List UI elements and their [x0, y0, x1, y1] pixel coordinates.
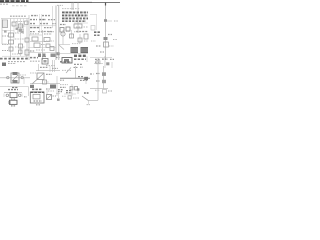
resistor R2 — [9, 33, 14, 37]
label texture mid y44 — [41, 44, 45, 46]
label x66 y92.5 — [66, 92, 72, 94]
label list row 5 word c — [48, 31, 54, 33]
wire ladder tick 3 — [72, 11, 74, 22]
capacitor C6 — [50, 47, 54, 51]
wire main right bus x105.5 — [105, 3, 107, 61]
wire horizontal y93.8 b — [64, 93, 76, 95]
bridge BR1 top blob — [13, 72, 18, 75]
wire ladder tick 5 — [80, 11, 82, 22]
label between boxes — [11, 98, 16, 100]
label x60 y80 — [60, 79, 64, 81]
label parts list row — [10, 15, 26, 17]
label right of D5 — [46, 73, 52, 75]
wire vertical x28.5 low — [28, 87, 30, 96]
choke L2 hatch 1 — [81, 48, 88, 50]
label texture right y37 — [74, 31, 80, 33]
label x66 y90.5 — [66, 90, 72, 92]
wire horizontal y56 left — [2, 55, 27, 57]
wire vertical x80 — [79, 34, 81, 44]
transformer T1 winding line 3 — [3, 25, 7, 27]
label left of R10 — [96, 73, 100, 75]
label below module — [36, 104, 41, 106]
wire vertical x20.5 — [20, 19, 22, 57]
label texture y44 right — [72, 43, 80, 45]
capacitor C15 dark — [50, 85, 56, 89]
label block row 4 — [62, 20, 86, 22]
capacitor C1b — [25, 21, 29, 25]
resistor R11 body — [102, 80, 106, 83]
label row y31 right — [76, 31, 88, 33]
terminal pad dark — [2, 63, 6, 67]
wire vertical x23.5 — [23, 19, 25, 35]
label above T3 — [8, 89, 18, 91]
label texture band y61 x14 — [8, 61, 26, 63]
wire horizontal y41 — [30, 41, 44, 43]
label x30 y51 — [30, 50, 35, 52]
label x95 y62 — [95, 61, 100, 63]
title caption text line2 — [0, 3, 9, 5]
section label dashes mid — [30, 57, 38, 59]
connector circle right — [21, 76, 23, 78]
choke L1 dark body — [71, 47, 79, 53]
node blob x105 y20 — [104, 19, 107, 22]
bridge BR1 bottom blob — [13, 80, 18, 83]
module B1 inner — [64, 59, 69, 62]
wire vertical drop x72 — [71, 3, 73, 11]
diode D7 diagonal — [66, 68, 71, 74]
label list row 3 word b — [40, 23, 48, 25]
wire vertical x78 low — [77, 88, 79, 94]
wire tail x88.5 down — [88, 100, 90, 104]
label texture left y33 — [15, 32, 24, 34]
label x58 y89.5 — [58, 89, 63, 91]
choke L1 hatch 1 — [71, 48, 78, 50]
node blob on bus y38 — [104, 37, 108, 40]
label right edge y39 — [113, 39, 117, 41]
label texture band y66 x46 — [46, 65, 56, 67]
transformer T1 hatched box — [3, 20, 8, 28]
label faint top strip — [12, 5, 28, 7]
wire vertical x14 — [13, 19, 15, 41]
wire horizontal y93.5 a — [56, 93, 60, 95]
capacitor C5 — [46, 44, 50, 48]
label B+ row1 — [94, 31, 101, 33]
wire vertical x105 band — [104, 56, 106, 68]
capacitor C10 — [60, 28, 64, 33]
label list row 1 word a — [31, 15, 38, 17]
capacitor C7 dark body — [38, 54, 41, 58]
module box B1 — [62, 58, 72, 64]
resistor R12 — [68, 96, 71, 99]
IC U2 box — [10, 100, 18, 104]
transformer T2 dark body — [74, 55, 86, 57]
diode D8 dark dashes — [84, 92, 89, 94]
wire bus x56 — [55, 6, 57, 61]
label x60 y87 — [60, 86, 66, 88]
diode D4 — [104, 42, 109, 47]
label list row 3 word c — [52, 23, 56, 25]
node blob x22 y31 — [21, 31, 24, 33]
capacitor C12 — [84, 34, 88, 39]
choke L1 hatch 2 — [71, 50, 78, 52]
label texture y90 x96 — [95, 89, 100, 91]
label list row 1 word b — [42, 15, 50, 17]
wire vertical x10.5 — [10, 19, 12, 59]
bridge BR1 diagonal — [12, 75, 18, 81]
label texture y70 x62 — [62, 69, 72, 71]
diode D8 diagonal — [82, 96, 88, 100]
label +115V row1 — [78, 76, 84, 78]
wire mains horizontal y77.8 — [0, 77, 30, 79]
wire horizontal y53 — [58, 52, 88, 54]
rectifier D5 diagonal — [38, 74, 44, 80]
choke L2 hatch 2 — [81, 50, 88, 52]
label list row 5 word a — [30, 31, 35, 33]
ground mark tail — [87, 104, 91, 106]
label right edge y21 — [114, 20, 118, 22]
wire horizontal y52.5 — [28, 52, 58, 54]
wire corner horizontal y100.3 — [88, 99, 98, 101]
wire tick right x22 — [21, 94, 23, 98]
wire pair x54.5 — [54, 60, 56, 72]
module M1 inner box — [33, 94, 40, 99]
label list row 3 word a — [30, 23, 36, 25]
capacitor C18 box — [47, 95, 52, 100]
wire vertical x17.5 — [17, 19, 19, 34]
resistor R6 — [44, 38, 50, 42]
capacitor C3 — [9, 47, 13, 51]
label x40 y67 — [40, 66, 48, 68]
label texture left y44 — [2, 44, 8, 46]
wire vertical x24 low — [23, 78, 25, 84]
label x95 y59 — [95, 58, 100, 60]
connector circle T3 right — [18, 94, 21, 97]
label under B1 row — [74, 63, 82, 65]
label right of bus — [108, 34, 112, 36]
connector circle T3 left — [6, 94, 9, 97]
label above module — [32, 88, 42, 90]
title caption text — [0, 0, 29, 2]
wire tick left x4 — [3, 94, 5, 98]
capacitor C13 faint — [91, 26, 95, 31]
wire horizontal y23 right — [74, 22, 88, 24]
wire horizontal y57.5 right — [90, 57, 112, 59]
connector circle left — [7, 76, 9, 78]
wire vertical x57 lower — [56, 76, 58, 96]
label texture mid y50 — [36, 49, 46, 51]
resistor R4 — [19, 50, 23, 54]
resistor R8 — [78, 38, 82, 42]
label x110 y59 — [110, 58, 114, 60]
wire vertical x98 lower — [97, 58, 99, 100]
wire vertical x38.5 top — [38, 64, 40, 71]
label block row 3 — [62, 17, 88, 19]
capacitor C2 — [25, 38, 29, 42]
resistor R1 — [19, 24, 23, 28]
wire vertical x27 — [26, 19, 28, 59]
label mid rows2 — [44, 33, 52, 35]
label texture left y26 — [16, 25, 26, 27]
diode D2 — [70, 34, 74, 38]
capacitor C18 cross — [47, 95, 51, 99]
wire tick x47 top — [46, 88, 48, 94]
resistor R7 — [74, 24, 82, 28]
label texture x92 y41 — [91, 40, 96, 42]
label texture band y61 x30 — [30, 60, 40, 62]
label left mid — [2, 35, 8, 37]
label texture left y47 — [15, 46, 25, 48]
transistor Q1 circle — [61, 32, 65, 36]
label under pad — [8, 63, 16, 65]
capacitor C14 — [43, 80, 47, 84]
module M1 top edge dark — [31, 91, 45, 93]
capacitor C9 dark body — [51, 54, 56, 58]
label right x24 y97 — [24, 96, 27, 98]
label left of R11 — [96, 80, 100, 82]
capacitor C16 — [70, 87, 73, 91]
label texture right y34 — [66, 31, 70, 33]
label x96 y46 — [96, 45, 101, 47]
capacitor C4 — [25, 50, 29, 55]
label texture y82 x44 — [44, 81, 49, 83]
label texture x110 y46 — [109, 45, 114, 47]
wire horizontal y83.6 — [30, 83, 60, 85]
transformer T1 winding line 1 — [3, 21, 7, 23]
capacitor C11 — [66, 27, 70, 31]
label x58 y91.5 — [58, 91, 62, 93]
wire B+ horizontal y78.3 — [60, 77, 90, 79]
label texture right y26 — [76, 26, 88, 28]
diode D1 — [19, 44, 23, 48]
diode D6 diagonal — [32, 79, 38, 85]
wire vertical x75.5 — [75, 66, 77, 78]
wire vertical x50 — [49, 66, 51, 72]
label texture y85 x60 — [60, 84, 68, 86]
label texture left y54 — [12, 53, 22, 55]
wire horizontal y47 — [28, 47, 56, 49]
label right of B1 — [74, 58, 86, 60]
label x103 y59 — [102, 58, 108, 60]
label x100 y52 — [100, 51, 104, 53]
wire horizontal y70.5 — [36, 70, 60, 72]
resistor R10 body — [102, 72, 106, 76]
wire horizontal y92.4 — [4, 91, 22, 93]
node blob x19 y29.5 — [19, 29, 22, 32]
label mid rows — [44, 31, 52, 33]
label texture mid y34 — [30, 33, 40, 35]
wire vertical drop x73.5 — [73, 3, 75, 11]
capacitor C8 dark body — [43, 54, 46, 58]
node blob x16 y28 — [16, 28, 19, 30]
IC U2 left dark edge — [9, 101, 11, 104]
label +115V row2 — [80, 79, 88, 81]
label texture y91 x50 — [48, 90, 54, 92]
transformer T3 box — [10, 93, 17, 98]
capacitor C1 — [12, 22, 16, 26]
transformer T1 winding line 2 — [3, 23, 7, 25]
label left low — [2, 50, 8, 52]
wire vertical x71.5 — [71, 30, 73, 38]
label x56 y57 — [56, 57, 60, 59]
label B+ row2 — [94, 34, 100, 36]
wire vertical x29 long — [28, 15, 30, 60]
wire vertical x103.5 — [103, 66, 105, 89]
top border rule heavy mid — [28, 1, 92, 3]
wire horizontal y35 — [29, 34, 42, 36]
node blob x58 y99 — [57, 99, 60, 101]
node bus junction — [57, 52, 60, 55]
wire ladder tick 1 — [64, 11, 66, 22]
wire horizontal y18.5 — [1, 18, 29, 20]
label texture y96 x62 — [62, 95, 66, 97]
wire horizontal y21 right — [106, 20, 112, 22]
node blob x5 y31 — [4, 30, 7, 32]
wire ladder tick 2 — [68, 11, 70, 22]
label list row 4 word a — [30, 27, 40, 29]
label texture left y39 — [15, 38, 24, 40]
wire pair x52-54 — [52, 60, 54, 72]
label texture y75 x20 — [20, 74, 26, 76]
label list row 5 word b — [38, 31, 44, 33]
wire faint y14.5 — [90, 14, 97, 16]
label under rule mid — [57, 4, 63, 6]
wire tick x39.5 — [39, 14, 41, 33]
label list row 2 word c — [48, 19, 55, 21]
label texture y73 x30 — [30, 72, 36, 74]
node top of right bus — [105, 3, 107, 6]
label texture ladder y8 — [62, 8, 80, 10]
label list row 4 word b — [44, 27, 52, 29]
top border rule — [0, 2, 120, 4]
wire horizontal y44.5 — [58, 44, 70, 46]
label x108 y91 — [108, 90, 112, 92]
rectifier box D5 — [37, 73, 44, 80]
wire bus stub x52.5 — [52, 6, 54, 28]
IC U1 box — [42, 59, 48, 65]
node dark x107 y63 — [106, 62, 109, 65]
label R1 value — [16, 29, 24, 31]
wire bus x58.8 — [58, 6, 60, 61]
label dash x90 y74 — [90, 73, 94, 75]
label y24 left — [60, 24, 66, 26]
module M1 inner marks — [34, 100, 43, 102]
wire ladder tick 6 — [84, 11, 86, 22]
label texture right y41 — [84, 40, 88, 42]
wire tick x86 down — [85, 79, 87, 84]
resistor R9 — [96, 61, 100, 64]
choke L2 dark body — [81, 47, 89, 53]
ground mark below U2 — [11, 105, 16, 107]
wire tick x87 band — [86, 56, 88, 62]
label right of C18 — [53, 95, 57, 97]
wire vertical x78 top — [77, 3, 79, 34]
wire tick x41.5 — [41, 14, 43, 33]
wire faint x96.5 — [96, 15, 98, 31]
node junction x86 — [84, 77, 88, 80]
diode D3 diagonal — [59, 45, 64, 50]
wire horizontal y30 left — [2, 30, 14, 32]
capacitor C17 — [75, 87, 78, 91]
label dark section row2 — [60, 61, 71, 63]
label texture left y22 — [16, 21, 26, 23]
wire horizontal y88.5 right — [90, 88, 108, 90]
IC U1 inner mark — [44, 60, 47, 63]
wire vertical x58.5 — [58, 92, 60, 98]
wire vertical x63 — [62, 30, 64, 45]
label x80 y67 — [80, 66, 83, 68]
label tick mid — [42, 56, 46, 58]
wire horizontal y63.5 right — [94, 63, 103, 65]
wire vertical x42.5 — [42, 30, 44, 60]
wire horizontal y86.6 left — [0, 86, 29, 88]
resistor R3 — [9, 40, 14, 44]
wire elbow y44 — [2, 43, 7, 45]
wire vertical x112 — [111, 62, 113, 68]
capacitor C19 faint — [103, 90, 107, 94]
bridge rectifier BR1 box — [11, 73, 19, 83]
shielded module M1 box — [30, 92, 44, 103]
label under bridge — [12, 86, 18, 88]
wire vertical x72 low — [71, 84, 73, 96]
terminal blob left y85 — [30, 85, 34, 88]
label x52 y68 — [52, 67, 58, 69]
node blob x78 y89 — [77, 88, 80, 90]
arrow ticks x75 — [74, 66, 79, 68]
label block row 1 — [62, 11, 88, 13]
relay RY1 — [34, 43, 40, 48]
label texture mid y39 — [46, 40, 54, 42]
section label dashes left — [0, 58, 28, 60]
label block row 2 — [62, 14, 88, 16]
wire vertical x2 — [1, 19, 3, 45]
wire ladder tick 4 — [76, 11, 78, 22]
label tick x46 y89 — [46, 88, 50, 90]
label list row 2 word b — [39, 19, 46, 21]
resistor R5 — [32, 37, 38, 41]
wire horizontal y25.8 — [30, 25, 56, 27]
label texture y98 x74 — [73, 97, 79, 99]
label list row 2 word a — [30, 19, 37, 21]
